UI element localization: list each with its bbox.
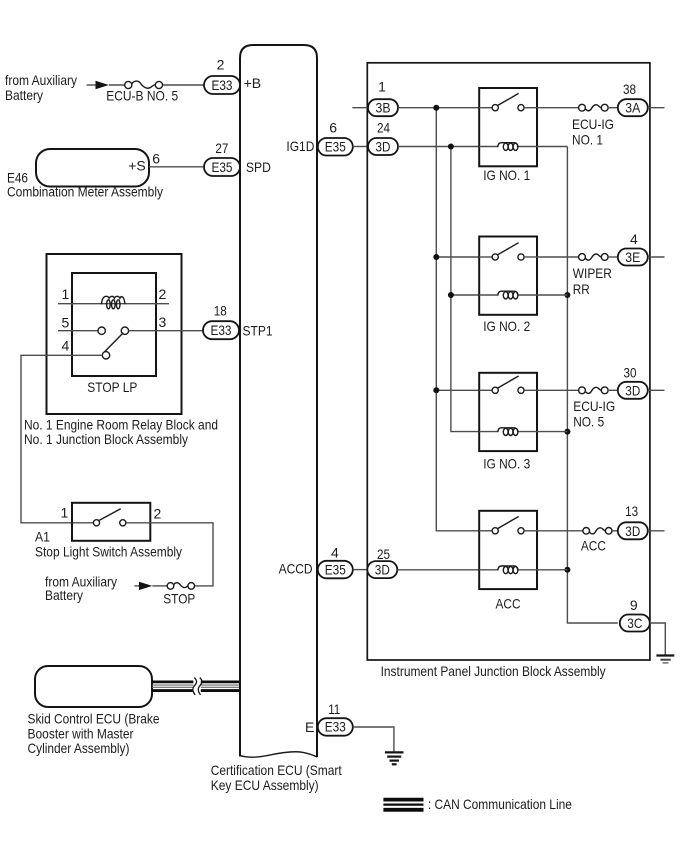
connector 3D pin 30	[618, 365, 648, 399]
svg-text:E35: E35	[212, 159, 233, 175]
legend CAN communication line	[383, 796, 572, 812]
svg-text:Stop Light Switch Assembly: Stop Light Switch Assembly	[35, 544, 182, 560]
fuse ECU-IG NO.1	[572, 104, 614, 147]
svg-text:9: 9	[630, 597, 638, 613]
bus wire IG NO.2 coil feed	[451, 294, 479, 296]
fuse ECU-B NO. 5	[106, 81, 178, 103]
svg-text:ECU-B NO. 5: ECU-B NO. 5	[106, 87, 178, 103]
svg-text:SPD: SPD	[246, 159, 271, 175]
wire E35 ACCD to 3D	[353, 569, 368, 571]
svg-text:NO. 1: NO. 1	[572, 131, 603, 147]
svg-text:3D: 3D	[625, 523, 640, 539]
svg-text:A1: A1	[35, 528, 50, 544]
svg-text:5: 5	[62, 314, 70, 330]
svg-text:25: 25	[377, 546, 390, 562]
svg-text:STP1: STP1	[243, 323, 273, 339]
connector 3D pin 25	[367, 546, 397, 578]
svg-text:IG NO. 3: IG NO. 3	[483, 456, 530, 472]
relay IG NO.2 box	[479, 237, 537, 335]
svg-text:3D: 3D	[625, 382, 640, 398]
relay STOP LP inner box	[72, 273, 156, 395]
svg-text:ACC: ACC	[496, 595, 521, 611]
svg-text:WIPER: WIPER	[573, 265, 612, 281]
wire IG NO.2 switch to fuse	[537, 256, 579, 258]
wire IG NO.2 coil to right bus	[537, 294, 567, 296]
relay IG NO.2 coil	[479, 291, 537, 299]
wire STOP LP pin 4 down to stop light switch	[21, 355, 102, 523]
combination meter assembly E46 box	[7, 149, 163, 199]
ground (3C)	[656, 656, 674, 663]
connector E35 pin 4 (ACCD) on right edge of ECU	[279, 544, 353, 578]
wire IG NO.1 coil to right bus	[537, 146, 567, 148]
wire arrow to fuse STOP	[152, 585, 167, 587]
stub wire right of 3D pin30	[648, 389, 665, 391]
wire fuse to 3E	[608, 256, 618, 258]
wire 3D pin25 to ACC relay coil	[397, 569, 479, 571]
No.1 engine room relay block outer box	[24, 254, 218, 447]
svg-text:ECU-IG: ECU-IG	[572, 116, 614, 132]
wire fuse to 3A	[608, 107, 618, 109]
svg-text:Battery: Battery	[45, 587, 83, 603]
fuse ACC	[581, 528, 612, 554]
skid control ECU box	[28, 666, 160, 756]
svg-text:3C: 3C	[627, 615, 642, 631]
svg-text:3B: 3B	[376, 100, 391, 116]
STOP LP switch pin 5 wire	[58, 314, 98, 330]
svg-text:E33: E33	[325, 719, 346, 735]
stub wire right of 3E	[648, 256, 665, 258]
bus wire 2 (3D24 feed) vertical	[451, 147, 479, 432]
STOP LP switch contacts and blade	[62, 314, 167, 359]
svg-text:E: E	[305, 719, 314, 735]
CAN communication lines skid ECU to certification ECU	[152, 682, 239, 691]
svg-text:ECU-IG: ECU-IG	[573, 398, 615, 414]
svg-text:from Auxiliary: from Auxiliary	[5, 72, 77, 88]
wire fuse to connector E33	[163, 84, 205, 86]
connector E33 pin 2 (+B)	[204, 57, 261, 94]
relay IG NO.3 coil	[479, 428, 537, 436]
bus wire IG NO.3 switch feed	[436, 389, 479, 391]
svg-text:4: 4	[331, 544, 339, 560]
STOP LP relay coil	[102, 296, 126, 309]
svg-text:6: 6	[329, 119, 337, 135]
svg-text:Battery: Battery	[5, 87, 43, 103]
svg-text:+S: +S	[128, 158, 146, 174]
svg-text:ACC: ACC	[581, 538, 606, 554]
svg-text:Cylinder Assembly): Cylinder Assembly)	[28, 740, 130, 756]
wire fuse to 3D pin13	[612, 530, 618, 532]
connector 3C pin 9	[620, 597, 650, 632]
relay IG NO.1 switch	[479, 93, 537, 110]
fuse ECU-IG NO.5	[573, 387, 615, 430]
svg-text:E33: E33	[212, 77, 233, 93]
wire E pin to ground	[353, 727, 394, 752]
relay IG NO.1 box	[479, 88, 537, 183]
svg-text:IG NO. 1: IG NO. 1	[483, 167, 530, 183]
svg-text:3D: 3D	[375, 562, 390, 578]
svg-text:38: 38	[623, 81, 636, 97]
svg-text:6: 6	[152, 150, 160, 166]
svg-text:3A: 3A	[625, 100, 641, 116]
svg-text:11: 11	[328, 701, 340, 717]
svg-text:2: 2	[154, 505, 162, 521]
svg-text:1: 1	[62, 286, 70, 302]
svg-text:1: 1	[378, 79, 386, 95]
certification ECU (Smart Key ECU Assembly) body	[211, 45, 342, 793]
relay ACC switch	[479, 517, 537, 534]
connector E35 pin 6 (IG1D) on right edge of ECU	[286, 119, 352, 155]
wire IG NO.1 switch to fuse	[537, 107, 579, 109]
svg-text:E35: E35	[325, 561, 346, 577]
fuse WIPER RR	[573, 254, 612, 297]
relay IG NO.2 switch	[479, 243, 537, 260]
svg-text:4: 4	[630, 231, 638, 247]
wire 3B to IG NO.1 relay switch	[398, 107, 479, 109]
svg-text:18: 18	[214, 303, 227, 319]
svg-text:ACCD: ACCD	[279, 560, 313, 576]
svg-text:3D: 3D	[376, 139, 391, 155]
wire E35 IG1D to 3D	[353, 146, 368, 148]
svg-text:3: 3	[159, 314, 167, 330]
connector E35 pin 27 (SPD)	[204, 140, 271, 176]
svg-text:Skid Control ECU (Brake: Skid Control ECU (Brake	[28, 710, 160, 726]
wire arrow to fuse	[109, 84, 125, 86]
svg-text:Instrument Panel Junction Bloc: Instrument Panel Junction Block Assembly	[381, 663, 606, 679]
label from Auxiliary Battery (top)	[5, 72, 77, 103]
svg-text:24: 24	[377, 119, 390, 135]
svg-text:Combination Meter Assembly: Combination Meter Assembly	[7, 183, 163, 199]
wire +S to connector E35	[149, 166, 204, 168]
ground (certification ECU E pin)	[385, 752, 404, 764]
connector E33 pin 11 (E) on right edge of ECU	[305, 701, 353, 736]
svg-text:27: 27	[215, 140, 228, 156]
label from Auxiliary Battery (bottom)	[45, 574, 117, 603]
stop light switch A1 box	[35, 503, 182, 560]
connector 3A pin 38	[618, 81, 648, 116]
wire switch pin 2 to fuse STOP	[126, 523, 213, 586]
relay ACC coil	[479, 566, 537, 574]
wire ACC switch to fuse	[537, 530, 583, 532]
wire ACC coil to right bus	[537, 569, 567, 571]
svg-text:STOP: STOP	[163, 590, 195, 606]
battery feed arrow (bottom)	[134, 582, 152, 590]
stub wire right of 3A	[648, 107, 665, 109]
svg-text:STOP LP: STOP LP	[87, 379, 137, 395]
svg-text:Certification ECU (Smart: Certification ECU (Smart	[211, 762, 342, 778]
svg-text:+B: +B	[244, 75, 262, 91]
wire IG NO.3 switch to fuse	[537, 389, 579, 391]
svg-text:2: 2	[159, 286, 167, 302]
stub wire right of 3D pin13	[648, 530, 665, 532]
bus wire 1 (3B feed) vertical	[436, 108, 479, 531]
wire IG NO.3 coil to right bus	[537, 431, 567, 433]
svg-text:1: 1	[61, 505, 69, 521]
STOP LP pin 3 wire to connector	[129, 330, 203, 332]
svg-text:4: 4	[62, 337, 70, 353]
svg-text:IG1D: IG1D	[286, 138, 314, 154]
instrument panel junction block assembly box	[367, 63, 650, 679]
CAN line break symbol	[193, 678, 202, 695]
wire fuse to 3D pin30	[608, 389, 618, 391]
svg-text:No. 1 Engine Room Relay Block: No. 1 Engine Room Relay Block and	[24, 417, 218, 433]
relay IG NO.1 coil	[479, 143, 537, 151]
relay ACC box	[479, 511, 537, 612]
svg-text:RR: RR	[573, 281, 590, 297]
svg-text:E33: E33	[211, 322, 232, 338]
wire 3D pin24 to IG NO.1 relay coil	[398, 146, 479, 148]
relay IG NO.3 box	[479, 373, 537, 472]
svg-text:NO. 5: NO. 5	[573, 414, 604, 430]
svg-text:: CAN Communication Line: : CAN Communication Line	[428, 796, 572, 812]
svg-text:E35: E35	[325, 139, 346, 155]
connector E33 pin 18 (STP1)	[203, 303, 273, 340]
svg-text:No. 1 Junction Block Assembly: No. 1 Junction Block Assembly	[24, 431, 188, 447]
stub wire into 3B	[352, 107, 369, 109]
wire 3C to ground	[650, 623, 666, 655]
junction dots	[433, 105, 570, 573]
connector 3D pin 13	[618, 503, 648, 539]
svg-text:Key ECU Assembly): Key ECU Assembly)	[211, 777, 319, 793]
svg-text:IG NO. 2: IG NO. 2	[483, 318, 530, 334]
svg-text:3E: 3E	[625, 249, 640, 265]
connector 3E pin 4	[618, 231, 648, 266]
svg-text:30: 30	[624, 365, 637, 381]
fuse STOP	[163, 583, 195, 607]
svg-text:Booster with Master: Booster with Master	[28, 725, 134, 741]
svg-text:2: 2	[217, 57, 225, 73]
connector 3B pin 1	[368, 79, 398, 117]
battery feed arrow (top)	[87, 81, 109, 90]
bus wire IG NO.2 switch feed	[436, 256, 479, 258]
connector 3D pin 24	[368, 119, 398, 155]
relay IG NO.3 switch	[479, 376, 537, 393]
right bus wire (coil returns to 3C)	[567, 147, 617, 624]
stop light switch contacts and blade	[93, 509, 126, 526]
STOP LP coil wire pins 1-2	[58, 286, 169, 304]
svg-text:13: 13	[625, 503, 638, 519]
